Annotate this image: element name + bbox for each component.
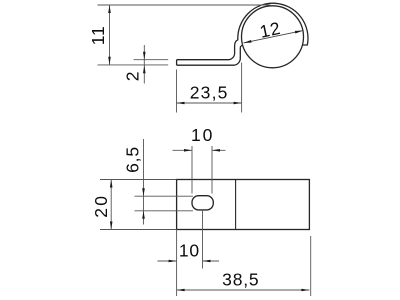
hole: slot 10 x 6,5 <box>192 196 213 210</box>
dimension 20 line <box>110 180 112 230</box>
wire: extension line top of loop (for dim 11) <box>98 4 271 6</box>
wire: rect left edge extension down (for dims 10 and 38,5) <box>176 230 178 297</box>
wire: bend line on plate <box>235 180 237 230</box>
svg-text:20: 20 <box>91 194 111 218</box>
label 20 <box>91 194 111 218</box>
wire: rect bottom edge extension (for dim 20) <box>100 229 177 231</box>
dimension 10 (slot width) <box>173 149 226 151</box>
dimension 10 (slot position) <box>158 260 220 262</box>
wire: side view outer contour of clip (strip top surface into outer loop arc) <box>177 3 308 60</box>
label 11 <box>88 25 108 45</box>
wire: extension line right for dim 23,5 <box>241 63 243 113</box>
wire: extension line bottom of strip (for dims 11 and 2) <box>98 64 169 66</box>
wire: rect top edge extension (for dim 20) <box>100 179 177 181</box>
dimension 2 line <box>143 45 145 84</box>
label 12 <box>258 18 283 42</box>
plate: bottom view rectangle 38,5 x 20 <box>177 180 310 230</box>
svg-text:11: 11 <box>88 25 108 45</box>
svg-text:6,5: 6,5 <box>123 146 143 173</box>
wire: strip left end cap <box>176 60 178 65</box>
wire: slot center line extension (for dim 10 bottom) <box>202 210 204 269</box>
wire: slot left edge extension (for dim 10 top) <box>191 146 193 194</box>
dimension 11 line <box>109 5 111 65</box>
wire: side view inner contour (strip bottom surface into vertical band) <box>177 45 243 65</box>
label 6,5 <box>123 146 143 173</box>
dimension 38,5 line <box>177 289 310 291</box>
svg-text:10: 10 <box>191 125 214 145</box>
label 2 <box>123 71 143 82</box>
wire: extension line left for dim 23,5 <box>176 70 178 113</box>
wire: rect right edge extension down (for dim 38,5) <box>310 236 312 296</box>
dimension 6,5 line <box>143 139 145 225</box>
dimension 12 diameter line <box>244 31 303 43</box>
svg-text:2: 2 <box>123 71 143 82</box>
node: inner loop circle (dia 12) <box>242 6 304 68</box>
svg-text:38,5: 38,5 <box>222 269 259 289</box>
wire: slot right edge extension (for dim 10 top) <box>211 146 213 194</box>
svg-text:12: 12 <box>258 18 283 42</box>
wire: extension line top of strip (for dim 2) <box>134 59 169 61</box>
svg-text:23,5: 23,5 <box>190 83 229 103</box>
wire: slot top edge extension (for dim 6,5) <box>135 195 194 197</box>
svg-text:10: 10 <box>179 240 200 260</box>
wire: slot bottom edge extension (for dim 6,5) <box>135 210 194 212</box>
dimension 23,5 line <box>177 102 242 104</box>
